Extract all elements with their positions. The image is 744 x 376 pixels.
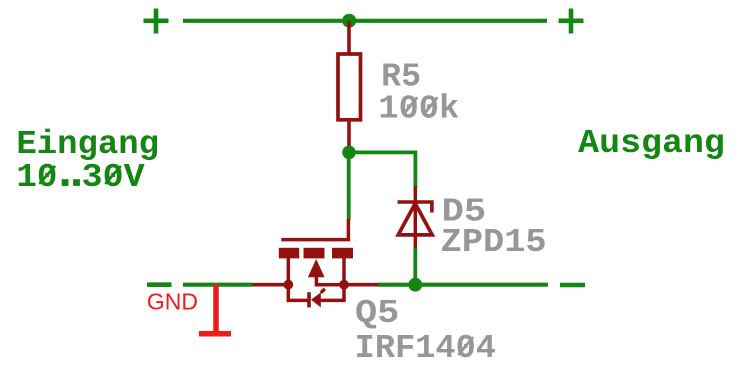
transistor Q5 body path right <box>321 285 344 301</box>
ground symbol <box>199 284 231 334</box>
wire: gate net down from junction <box>347 152 351 220</box>
transistor Q5 substrate stem <box>316 276 344 285</box>
minus symbol right (bottom rail) <box>560 283 585 288</box>
transistor Q5 drain dot <box>339 280 349 290</box>
transistor Q5 body path left <box>288 285 307 301</box>
resistor R5 bottom pin <box>347 120 351 151</box>
node: gate junction <box>342 146 356 160</box>
svg-text:10: 10 <box>16 159 57 196</box>
wire: bottom rail right <box>378 283 548 287</box>
wire: diode to bottom rail <box>413 248 417 285</box>
transistor Q5 source leg <box>287 258 291 285</box>
svg-text:30V: 30V <box>82 159 145 196</box>
svg-text:IRF1404: IRF1404 <box>355 330 496 367</box>
svg-text:100k: 100k <box>378 91 459 128</box>
diode D5 triangle <box>398 204 432 235</box>
transistor Q5 channel bar 1 <box>279 248 299 259</box>
transistor Q5 body diode bar <box>307 292 311 307</box>
transistor Q5 channel bar 2 <box>304 248 325 259</box>
transistor Q5 source dot <box>283 280 293 290</box>
svg-text:Ausgang: Ausgang <box>578 125 725 162</box>
resistor R5 body <box>338 54 361 120</box>
transistor Q5 drain leg <box>342 258 346 285</box>
transistor Q5 body diode hook <box>321 289 325 293</box>
transistor Q5 body diode triangle <box>311 292 321 307</box>
wire: bottom rail left <box>183 283 253 287</box>
wire: junction to diode branch <box>349 150 415 154</box>
svg-text:ZPD15: ZPD15 <box>441 224 547 261</box>
slashed zero marks <box>40 98 472 354</box>
wire: down to diode <box>413 151 417 189</box>
diode D5 pin through <box>414 186 418 250</box>
svg-text:GND: GND <box>147 288 198 314</box>
node: diode bottom junction <box>408 278 422 292</box>
svg-text:Q5: Q5 <box>355 295 399 332</box>
transistor Q5 drain stub <box>344 283 379 287</box>
minus symbol left (bottom rail) <box>147 282 172 287</box>
transistor Q5 source stub <box>252 283 288 287</box>
diode D5 cathode bar with hook <box>398 202 432 213</box>
plus symbol right (top rail) <box>559 9 584 34</box>
transistor Q5 gate pin <box>281 219 348 240</box>
node: top junction <box>342 14 356 28</box>
transistor Q5 substrate arrow <box>308 259 325 277</box>
wire: top rail <box>183 19 547 23</box>
svg-text:Eingang: Eingang <box>16 126 159 163</box>
resistor R5 top pin <box>347 21 351 54</box>
plus symbol left (top rail) <box>144 9 169 34</box>
transistor Q5 channel bar 3 <box>332 248 353 259</box>
